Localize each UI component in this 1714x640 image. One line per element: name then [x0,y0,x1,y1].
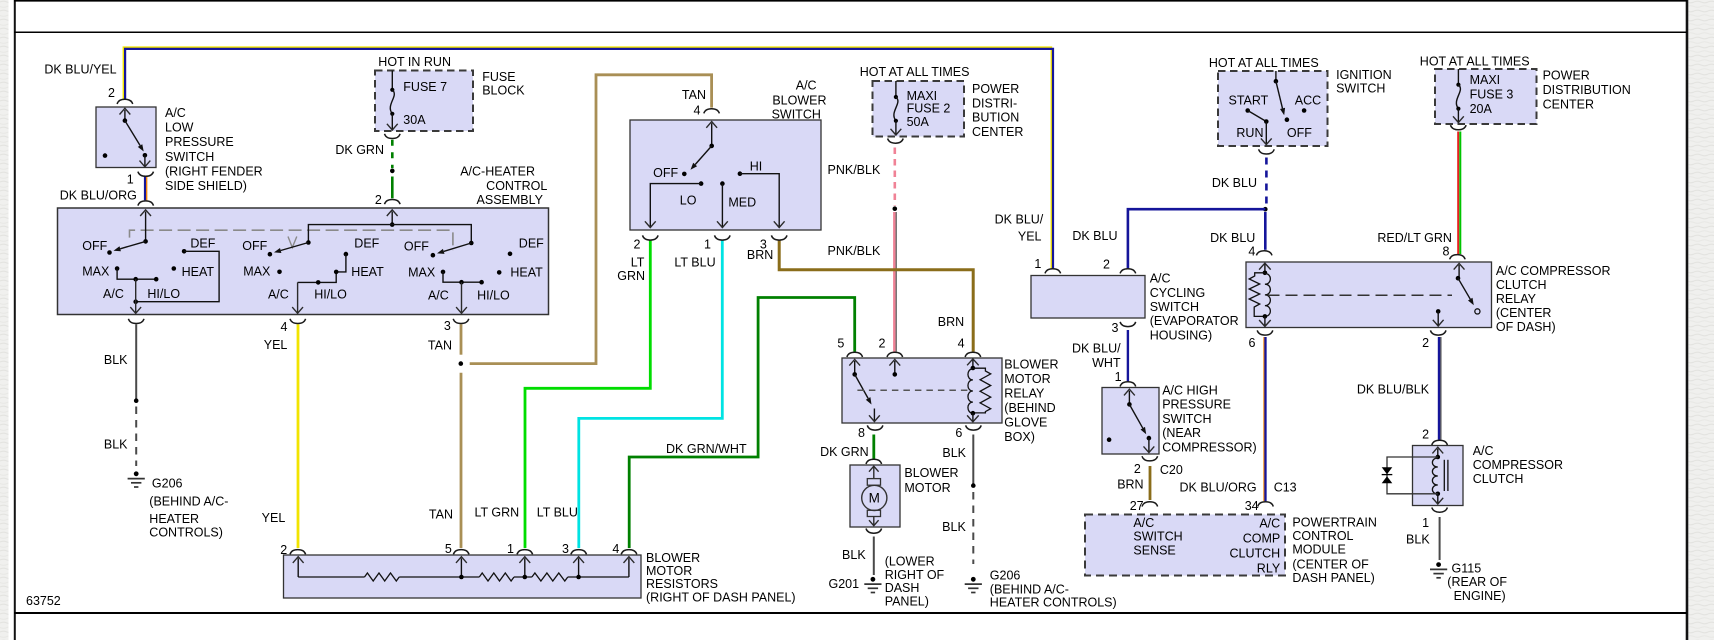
svg-text:RLY: RLY [1257,562,1281,576]
svg-text:DK GRN: DK GRN [820,445,869,459]
svg-text:3: 3 [444,319,451,333]
connector below ignition switch [1259,149,1275,154]
svg-text:COMPRESSOR: COMPRESSOR [1473,458,1563,472]
svg-text:20A: 20A [1470,102,1493,116]
A/C compressor clutch relay internals [1264,264,1266,273]
connector pin 5 of resistors [453,550,469,555]
svg-text:4: 4 [1248,245,1255,259]
svg-text:(NEAR: (NEAR [1162,426,1201,440]
svg-text:HEAT: HEAT [182,265,215,279]
power distribution center box (MAXI FUSE 3) [1435,69,1537,124]
svg-text:HEATER: HEATER [149,512,199,526]
svg-text:6: 6 [1248,336,1255,350]
svg-text:(BEHIND A/C-: (BEHIND A/C- [990,583,1069,597]
connector pin 3 of resistors [571,550,587,555]
svg-text:ENGINE): ENGINE) [1454,589,1506,603]
svg-text:CENTER: CENTER [972,125,1023,139]
svg-text:SWITCH: SWITCH [772,107,821,121]
svg-text:BRN: BRN [747,248,773,262]
MAXI FUSE 3 element [1457,69,1459,85]
resistor element 2 [479,573,514,581]
junction dot on TAN wire [459,361,464,366]
svg-text:(LOWER: (LOWER [885,555,935,569]
svg-text:G206: G206 [152,477,183,491]
control switch wafer 2 (middle) [306,240,311,245]
svg-text:DEF: DEF [190,237,215,251]
control assembly pin 1 entry arrow [145,212,147,242]
svg-text:POWERTRAIN: POWERTRAIN [1292,516,1377,530]
connector pin 5 of blower motor relay [847,352,863,357]
svg-text:4: 4 [694,104,701,118]
svg-text:LT GRN: LT GRN [475,506,520,520]
svg-text:BOX): BOX) [1004,430,1035,444]
svg-text:CLUTCH: CLUTCH [1229,547,1280,561]
svg-text:3: 3 [562,542,569,556]
svg-text:CONTROL: CONTROL [486,179,547,193]
connector pin 1 of blower switch [715,235,731,240]
svg-text:2: 2 [280,543,287,557]
wire DK GRN dashed from FUSE 7 to control assembly pin 2 [391,140,394,169]
wire DK BLU solid to compressor clutch relay pin 4 [1264,212,1267,250]
svg-text:DK BLU/YEL: DK BLU/YEL [44,63,116,77]
svg-text:A/C: A/C [1259,517,1280,531]
wire DK BLU/YEL from A/C low pressure switch pin 2 to A/C cycling switch pin 1 [123,47,1051,268]
svg-text:SWITCH: SWITCH [1150,300,1199,314]
svg-text:SIDE SHIELD): SIDE SHIELD) [165,179,247,193]
svg-text:2: 2 [633,237,640,251]
ground G115 [1436,562,1441,567]
svg-text:1: 1 [704,237,711,251]
svg-text:BLOWER: BLOWER [646,551,700,565]
A/C compressor clutch relay box [1246,262,1492,328]
junction dot on PNK/BLK wire [893,206,898,211]
svg-text:2: 2 [375,193,382,207]
connector pin 8 of compressor clutch relay [1450,255,1466,260]
connector pin 2 of blower motor relay [887,352,903,357]
svg-text:A/C: A/C [1473,444,1494,458]
control assembly ganged switch linkage dashed line [130,230,453,251]
control switch wafer 3 (right) [469,241,474,246]
connector pin 1 of cycling switch [1045,269,1061,274]
svg-text:ACC: ACC [1295,94,1321,108]
wire PNK/BLK solid to blower motor relay pin 2 [893,212,895,352]
svg-text:DK GRN: DK GRN [335,143,384,157]
svg-text:DK BLU/: DK BLU/ [995,212,1044,226]
svg-text:LT BLU: LT BLU [537,506,578,520]
svg-text:HI: HI [750,160,763,174]
ground G206 right [971,577,976,582]
svg-text:MOTOR: MOTOR [646,564,692,578]
svg-text:GRN: GRN [617,269,645,283]
fuse block box (FUSE 7) [375,71,473,132]
svg-text:DK BLU/: DK BLU/ [1072,342,1121,356]
svg-text:A/C: A/C [165,106,186,120]
svg-text:MOTOR: MOTOR [904,481,950,495]
connector pin 8 of blower motor relay [867,425,883,430]
svg-text:GLOVE: GLOVE [1004,416,1047,430]
svg-text:BLOWER: BLOWER [772,94,826,108]
connector pin 2 of A/C compressor clutch [1432,440,1448,445]
resistor element 1 [365,573,400,581]
blower motor resistors box [284,555,642,598]
svg-text:OFF: OFF [242,239,267,253]
svg-text:CYCLING: CYCLING [1150,286,1206,300]
svg-text:MAX: MAX [82,264,110,278]
A/C low pressure switch box [96,107,156,168]
connector pin 27 of PCM [1142,502,1158,507]
svg-text:G201: G201 [829,577,860,591]
svg-text:2: 2 [108,86,115,100]
svg-text:FUSE 2: FUSE 2 [907,102,951,116]
svg-text:OFF: OFF [404,240,429,254]
svg-text:1: 1 [507,542,514,556]
connector pin 4 of compressor clutch relay [1256,251,1272,256]
svg-text:(RIGHT OF DASH PANEL): (RIGHT OF DASH PANEL) [646,591,796,605]
wire DK GRN/WHT from blower motor relay pin 5 to resistors pin 4 [629,298,855,549]
svg-text:BLOCK: BLOCK [482,84,525,98]
svg-text:BLK: BLK [842,548,866,562]
svg-text:START: START [1229,94,1269,108]
svg-text:OFF: OFF [1287,126,1312,140]
connector at blower motor bottom [866,529,882,534]
wire BLK from relay pin 6 toward ground G206 [972,435,974,484]
powertrain control module box [1085,515,1285,576]
svg-text:DK BLU: DK BLU [1072,229,1117,243]
svg-text:PNK/BLK: PNK/BLK [828,244,881,258]
A/C low pressure switch internal contacts [124,110,126,121]
svg-text:HOT AT ALL TIMES: HOT AT ALL TIMES [860,65,970,79]
connector pin 1 of high pressure switch [1120,382,1136,387]
svg-text:HOT AT ALL TIMES: HOT AT ALL TIMES [1209,56,1319,70]
wire DK GRN from relay pin 8 to blower motor [872,435,875,460]
svg-text:(CENTER: (CENTER [1496,306,1552,320]
svg-text:C20: C20 [1160,463,1183,477]
svg-text:4: 4 [958,337,965,351]
svg-text:HOT AT ALL TIMES: HOT AT ALL TIMES [1420,55,1530,69]
connector pin 1 of resistors [517,550,533,555]
svg-text:2: 2 [1422,428,1429,442]
wire BRN from blower switch pin 3 to blower motor relay pin 4 [779,240,973,351]
connector pin 34 of PCM [1258,502,1274,507]
wire LT BLU from blower switch pin 1 to resistors pin 3 [579,240,723,548]
svg-text:SWITCH: SWITCH [1162,412,1211,426]
power distribution center box (MAXI FUSE 2) [873,81,965,137]
svg-text:IGNITION: IGNITION [1336,68,1392,82]
svg-text:6: 6 [955,426,962,440]
A/C-heater control assembly box [58,208,549,315]
wire DK GRN solid segment to control assembly pin 2 [391,177,394,199]
svg-text:RELAY: RELAY [1004,387,1045,401]
svg-text:BLK: BLK [942,520,966,534]
svg-text:HEAT: HEAT [510,265,543,279]
svg-text:HOT IN RUN: HOT IN RUN [378,55,451,69]
svg-text:WHT: WHT [1092,356,1121,370]
svg-text:TAN: TAN [682,88,706,102]
svg-text:3: 3 [1111,321,1118,335]
wire BLK from control assembly pin to ground G206 [135,324,137,399]
svg-text:BLK: BLK [942,446,966,460]
svg-text:A/C: A/C [103,287,124,301]
connector pin 3 of control assembly [453,319,469,324]
svg-text:HOUSING): HOUSING) [1150,329,1213,343]
svg-text:30A: 30A [403,113,426,127]
svg-text:34: 34 [1245,499,1259,513]
svg-text:CONTROLS): CONTROLS) [149,526,223,540]
blower motor internals [873,467,875,479]
svg-text:DASH: DASH [885,581,920,595]
svg-text:PANEL): PANEL) [885,595,929,609]
svg-text:BLOWER: BLOWER [904,466,958,480]
ground G201 [871,577,876,582]
wire BRN from high pressure switch pin 2 to PCM pin 27 [1149,466,1152,500]
connector below MAXI FUSE 2 [888,139,904,144]
svg-text:YEL: YEL [264,338,288,352]
control assembly linkage V mark [288,237,297,248]
svg-text:DASH PANEL): DASH PANEL) [1292,571,1374,585]
svg-text:50A: 50A [907,115,930,129]
svg-text:OF DASH): OF DASH) [1496,320,1556,334]
ignition switch box [1218,71,1328,146]
A/C compressor clutch suppression diode [1387,457,1438,494]
svg-text:1: 1 [1115,370,1122,384]
svg-text:RIGHT OF: RIGHT OF [885,568,945,582]
connector pin 4 of blower switch [704,109,720,114]
svg-text:M: M [869,491,880,506]
svg-text:MED: MED [728,196,756,210]
svg-text:5: 5 [445,542,452,556]
svg-text:A/C: A/C [428,289,449,303]
blower motor relay internals [854,361,856,374]
connector pin 1 below control assembly (BLK) [128,319,144,324]
svg-text:POWER: POWER [972,82,1019,96]
svg-text:DEF: DEF [354,237,379,251]
connector pin 3 of blower switch [771,235,787,240]
wire TAN from control assembly pin 3 down [460,324,463,355]
svg-text:SENSE: SENSE [1133,544,1175,558]
wire YEL from control assembly pin 4 to resistors pin 2 [297,324,300,548]
svg-text:MAXI: MAXI [907,89,938,103]
svg-text:A/C: A/C [1133,516,1154,530]
svg-text:HEATER CONTROLS): HEATER CONTROLS) [990,596,1117,610]
junction dot on DK GRN wire [390,169,395,174]
connector pin 2 of cycling switch [1120,269,1136,274]
wire DK BLU/ORG from low pressure switch pin 1 to control assembly pin 1 [144,177,146,201]
connector pin 2 of compressor clutch relay [1430,330,1446,335]
svg-text:LOW: LOW [165,121,194,135]
svg-text:(EVAPORATOR: (EVAPORATOR [1150,314,1239,328]
control assembly pin 2 entry arrow and bus [391,212,393,224]
junction dot on relay BLK wire [971,483,976,488]
svg-text:(CENTER OF: (CENTER OF [1292,558,1369,572]
svg-text:DK BLU/ORG: DK BLU/ORG [1179,481,1256,495]
blower motor resistors internals [297,558,299,577]
svg-text:MAX: MAX [408,265,436,279]
svg-text:RUN: RUN [1236,126,1263,140]
svg-text:HI/LO: HI/LO [147,287,180,301]
connector pin 1 of control assembly [138,201,154,206]
svg-text:BUTION: BUTION [972,111,1019,125]
svg-text:C13: C13 [1274,481,1297,495]
svg-text:G115: G115 [1452,562,1482,576]
connector pin 4 of blower motor relay [965,352,981,357]
A/C blower switch internals [711,123,713,146]
svg-text:DK GRN/WHT: DK GRN/WHT [666,442,747,456]
connector pin 2 of blower switch [643,235,659,240]
connector pin 4 of resistors [621,550,637,555]
svg-text:SWITCH: SWITCH [1133,530,1182,544]
svg-text:SWITCH: SWITCH [165,150,214,164]
svg-text:63752: 63752 [26,594,61,608]
svg-text:BRN: BRN [938,315,964,329]
svg-text:2: 2 [1103,258,1110,272]
svg-text:2: 2 [879,337,886,351]
resistor element 3 [532,573,568,581]
svg-text:PRESSURE: PRESSURE [1162,398,1231,412]
svg-text:A/C COMPRESSOR: A/C COMPRESSOR [1496,264,1611,278]
connector pin 2 of high pressure switch [1142,456,1158,461]
connector pin 6 of blower motor relay [966,425,982,430]
A/C cycling switch box [1031,276,1145,319]
A/C compressor clutch coil internals [1437,449,1439,457]
control switch wafer 1 (left) [143,239,148,244]
svg-text:MODULE: MODULE [1292,543,1345,557]
junction dot on DK BLU wire [1263,207,1268,212]
svg-text:BLOWER: BLOWER [1004,358,1058,372]
svg-text:DEF: DEF [519,237,544,251]
svg-text:1: 1 [1422,516,1429,530]
svg-text:LT BLU: LT BLU [674,256,715,270]
svg-text:RESISTORS: RESISTORS [646,577,718,591]
svg-text:8: 8 [1443,245,1450,259]
wire LT GRN from blower switch pin 2 to resistors pin 1 [525,240,650,548]
svg-text:YEL: YEL [262,511,286,525]
A/C compressor clutch box [1413,446,1464,506]
svg-text:MAX: MAX [243,264,271,278]
connector pin 1 of low pressure switch [138,172,154,177]
wire RED/LT GRN from MAXI FUSE 3 to compressor clutch relay pin 8 [1457,132,1459,255]
ground G206 left [134,471,139,476]
A/C high pressure switch box [1102,388,1159,455]
connector pin 2 of resistors [290,550,306,555]
A/C high pressure switch internals [1128,391,1130,405]
A/C blower switch box [630,120,821,230]
svg-text:FUSE: FUSE [482,70,515,84]
FUSE 7 element [391,71,393,90]
connector below FUSE 7 [385,134,401,139]
svg-text:HEAT: HEAT [351,265,384,279]
svg-text:DISTRI-: DISTRI- [972,96,1017,110]
wire BLK from blower motor to ground G201 [873,537,875,576]
wire DK BLU branch to A/C cycling switch pin 2 [1128,209,1265,268]
svg-text:FUSE 3: FUSE 3 [1470,88,1514,102]
svg-text:DK BLU/ORG: DK BLU/ORG [60,189,137,203]
svg-text:DISTRIBUTION: DISTRIBUTION [1543,83,1631,97]
svg-text:HI/LO: HI/LO [477,289,510,303]
svg-text:(REAR OF: (REAR OF [1447,575,1507,589]
connector pin 2 of low pressure switch [117,99,133,104]
svg-text:RED/LT GRN: RED/LT GRN [1377,231,1452,245]
svg-text:4: 4 [612,542,619,556]
svg-text:LO: LO [680,194,697,208]
svg-text:POWER: POWER [1543,69,1590,83]
svg-text:DK BLU: DK BLU [1210,231,1255,245]
svg-text:4: 4 [280,320,287,334]
blower motor box [850,465,900,527]
svg-text:PNK/BLK: PNK/BLK [828,163,881,177]
connector pin 4 of control assembly [290,319,306,324]
svg-text:YEL: YEL [1018,230,1042,244]
svg-text:A/C HIGH: A/C HIGH [1162,384,1218,398]
svg-text:CLUTCH: CLUTCH [1473,472,1524,486]
svg-text:PRESSURE: PRESSURE [165,135,234,149]
drawing frame borders [14,0,16,640]
wire TAN branch to A/C blower switch pin 4 [470,75,712,364]
svg-text:(BEHIND: (BEHIND [1004,401,1055,415]
svg-text:ASSEMBLY: ASSEMBLY [477,193,544,207]
wire DK BLU/BLK from relay pin 2 to A/C compressor clutch pin 2 [1438,337,1440,440]
svg-text:(BEHIND A/C-: (BEHIND A/C- [149,495,228,509]
svg-text:5: 5 [837,337,844,351]
svg-text:CONTROL: CONTROL [1292,529,1353,543]
svg-text:COMP: COMP [1243,532,1281,546]
wire BLK dashed segment to G206 [135,407,137,467]
svg-text:A/C-HEATER: A/C-HEATER [460,165,535,179]
connector pin 1 of A/C compressor clutch [1432,508,1448,513]
svg-text:27: 27 [1130,499,1144,513]
svg-text:A/C: A/C [1150,272,1171,286]
svg-text:DK BLU/BLK: DK BLU/BLK [1357,383,1430,397]
svg-text:LT: LT [631,256,645,270]
svg-text:COMPRESSOR): COMPRESSOR) [1162,440,1256,454]
svg-text:CLUTCH: CLUTCH [1496,278,1547,292]
svg-text:1: 1 [127,173,134,187]
wire BLK from compressor clutch pin 1 to ground G115 [1439,517,1441,560]
svg-text:A/C: A/C [796,79,817,93]
ignition switch internals [1275,71,1277,81]
svg-text:A/C: A/C [268,288,289,302]
wire TAN continuing to resistors pin 5 [460,373,463,548]
svg-text:MOTOR: MOTOR [1004,372,1050,386]
blower motor relay box [842,358,1002,423]
svg-text:FUSE 7: FUSE 7 [403,80,447,94]
wire DK BLU/WHT from cycling switch pin 3 to high pressure switch pin 1 [1127,330,1129,381]
svg-text:G206: G206 [990,569,1021,583]
svg-text:CENTER: CENTER [1543,98,1594,112]
wire BLK dashed segment to G206 right [972,492,974,564]
svg-text:DK BLU: DK BLU [1212,176,1257,190]
wire PNK/BLK dashed from MAXI FUSE 2 [893,148,896,206]
svg-text:BRN: BRN [1117,478,1143,492]
wire DK BLU dashed from ignition switch [1265,158,1268,206]
svg-text:MAXI: MAXI [1470,73,1501,87]
svg-text:OFF: OFF [82,239,107,253]
connector below MAXI FUSE 3 [1451,125,1467,130]
svg-text:SWITCH: SWITCH [1336,82,1385,96]
junction dot on BLK wire [134,398,139,403]
svg-text:BLK: BLK [1406,533,1430,547]
svg-text:(RIGHT FENDER: (RIGHT FENDER [165,164,263,178]
svg-text:BLK: BLK [104,353,128,367]
svg-text:8: 8 [858,426,865,440]
connector pin 2 of control assembly [385,200,401,205]
svg-text:2: 2 [1422,336,1429,350]
svg-text:TAN: TAN [429,508,453,522]
MAXI FUSE 2 element [895,81,897,97]
svg-text:HI/LO: HI/LO [314,288,347,302]
svg-text:2: 2 [1134,462,1141,476]
svg-text:OFF: OFF [653,166,678,180]
svg-text:BLK: BLK [104,438,128,452]
